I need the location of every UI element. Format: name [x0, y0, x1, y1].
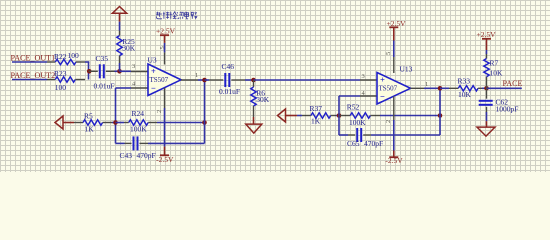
svg-text:1000pF: 1000pF	[496, 105, 519, 114]
svg-text:1: 1	[425, 81, 428, 88]
node R37-R52	[337, 113, 342, 118]
svg-text:PACE_OUT1: PACE_OUT1	[11, 54, 56, 63]
wire -2.5V U13	[393, 120, 395, 151]
pin 4 U3	[131, 87, 148, 89]
svg-text:30K: 30K	[122, 44, 136, 53]
svg-text:+2.5V: +2.5V	[156, 27, 176, 36]
op-amp U3	[148, 64, 181, 96]
node feedback left	[113, 120, 118, 125]
ground R6	[253, 117, 255, 124]
svg-text:+: +	[151, 66, 156, 76]
node U3 output	[202, 78, 207, 83]
svg-text:C46: C46	[222, 62, 235, 71]
capacitor C43	[116, 142, 125, 144]
wire -2.5V U3	[164, 108, 166, 147]
wire PACE	[487, 87, 522, 89]
resistor R37	[297, 115, 302, 117]
svg-text:470pF: 470pF	[137, 151, 156, 160]
power arrow R5	[55, 116, 63, 129]
wire R22 to junction	[85, 61, 89, 63]
svg-text:R33: R33	[458, 77, 471, 86]
svg-text:3: 3	[132, 63, 135, 70]
svg-text:1K: 1K	[311, 117, 321, 126]
wire feedback left vertical	[115, 88, 117, 143]
svg-text:R23: R23	[54, 69, 67, 78]
pin 1 U3	[181, 79, 198, 81]
svg-text:C43: C43	[120, 151, 133, 160]
wire U13 pin4 left	[339, 95, 360, 97]
svg-text:TS507: TS507	[150, 76, 169, 84]
svg-text:R5: R5	[84, 112, 93, 121]
wire U3 out	[198, 79, 205, 81]
wire C65 right	[371, 134, 440, 136]
capacitor C65	[339, 134, 348, 136]
svg-text:30K: 30K	[256, 95, 270, 104]
svg-text:PACE: PACE	[503, 79, 523, 88]
svg-text:R22: R22	[54, 52, 67, 61]
resistor R23	[47, 79, 55, 81]
wire input join vertical	[88, 62, 90, 80]
wire U13 out	[424, 87, 440, 89]
svg-text:-2.5V: -2.5V	[385, 156, 403, 165]
node R6	[251, 78, 256, 83]
svg-text:C35: C35	[96, 54, 109, 63]
pin 3 U3	[131, 71, 148, 73]
wire pin4 net vertical	[338, 96, 340, 135]
svg-text:1K: 1K	[85, 125, 95, 134]
svg-text:R24: R24	[132, 109, 145, 118]
svg-text:2: 2	[156, 110, 163, 113]
svg-text:5: 5	[385, 52, 392, 55]
resistor R7	[486, 54, 488, 59]
svg-text:TS507: TS507	[379, 85, 398, 93]
wire +2.5V U3	[164, 43, 166, 53]
title text 起搏检测电路	[156, 12, 162, 19]
svg-text:U3: U3	[148, 56, 157, 65]
node U13 output	[438, 86, 443, 91]
wire C35 to node	[115, 70, 120, 72]
svg-text:0.01uF: 0.01uF	[219, 87, 240, 96]
wire PACE_OUT1 to R22	[12, 61, 47, 63]
svg-text:3: 3	[362, 73, 365, 80]
op-amp U13	[377, 73, 411, 105]
pin 4 U13	[360, 95, 377, 97]
ground C62	[486, 121, 488, 127]
wire PACE_OUT2 to R23	[12, 79, 47, 81]
svg-text:PACE_OUT2: PACE_OUT2	[11, 71, 56, 80]
resistor R33	[440, 87, 449, 89]
resistor R52	[339, 115, 350, 117]
wire arrow to R25	[119, 22, 121, 31]
svg-text:R37: R37	[310, 104, 323, 113]
resistor R25	[119, 31, 121, 36]
wire R25 to node	[119, 63, 121, 71]
power -2.5V U13	[393, 151, 395, 158]
svg-text:U13: U13	[400, 65, 413, 74]
wire R37 to node	[336, 115, 339, 117]
wire feedback right vertical	[204, 80, 206, 143]
pin 5 U13	[393, 57, 395, 73]
svg-text:10K: 10K	[490, 69, 504, 78]
wire to U13 pin3	[254, 79, 361, 81]
svg-text:+: +	[380, 75, 385, 85]
pin 5 U3	[164, 52, 166, 64]
svg-text:−: −	[151, 83, 156, 93]
svg-text:−: −	[380, 92, 385, 102]
wire C62 down	[486, 112, 488, 121]
pin 2 U3	[164, 88, 166, 108]
capacitor C46	[205, 79, 210, 81]
node C35-R25	[117, 69, 122, 74]
svg-text:100: 100	[68, 51, 80, 60]
wire R24 right	[157, 122, 205, 124]
pin 2 U13	[393, 96, 395, 120]
pin 3 U13	[360, 79, 377, 81]
power -2.5V U3	[164, 147, 166, 156]
wire R5 to node	[112, 122, 116, 124]
wire U3 pin4 left	[116, 87, 132, 89]
power arrow +2.5V top	[112, 7, 126, 14]
svg-text:1: 1	[195, 72, 198, 79]
wire +2.5V U13	[393, 41, 395, 58]
svg-text:10K: 10K	[458, 90, 472, 99]
svg-text:100: 100	[55, 83, 67, 92]
wire output right vertical	[439, 88, 441, 135]
wire C43 right	[148, 142, 205, 144]
node feedback right	[202, 120, 207, 125]
capacitor C62	[486, 88, 488, 98]
resistor R22	[47, 61, 55, 63]
resistor R6	[253, 80, 255, 87]
wire to U3 pin3	[120, 70, 132, 72]
svg-text:2: 2	[385, 120, 392, 123]
svg-text:100K: 100K	[130, 125, 147, 134]
svg-text:470pF: 470pF	[364, 139, 383, 148]
svg-text:0.01uF: 0.01uF	[94, 82, 115, 91]
svg-text:C65: C65	[347, 139, 360, 148]
wire C46 to R6 node	[245, 79, 254, 81]
wire R7 top	[486, 50, 488, 54]
capacitor C35	[89, 70, 98, 72]
node input junction	[87, 69, 92, 74]
resistor R24	[116, 122, 125, 124]
resistor R5	[74, 122, 83, 124]
node R52 right	[438, 113, 443, 118]
wire R33 to node	[482, 87, 487, 89]
svg-text:R7: R7	[490, 59, 499, 68]
svg-text:-2.5V: -2.5V	[156, 155, 174, 164]
power arrow R37	[278, 109, 286, 122]
node output net	[484, 86, 489, 91]
svg-text:R52: R52	[347, 103, 360, 112]
svg-text:+2.5V: +2.5V	[476, 30, 496, 39]
wire R52 right	[380, 115, 440, 117]
svg-text:100K: 100K	[349, 118, 366, 127]
pin 1 U13	[411, 87, 425, 89]
